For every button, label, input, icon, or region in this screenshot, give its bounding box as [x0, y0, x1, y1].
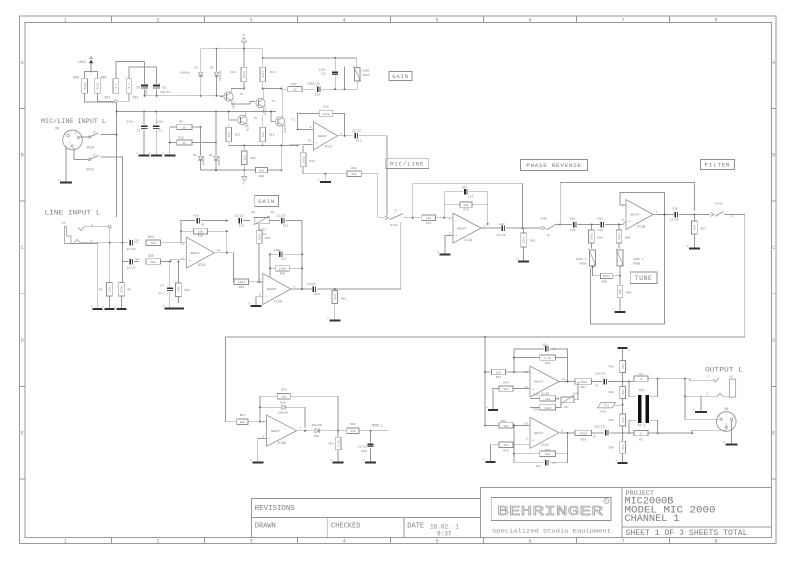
- svg-text:C8: C8: [201, 224, 205, 227]
- svg-text:1k04: 1k04: [238, 280, 245, 284]
- op-amp IC2C: [530, 417, 559, 448]
- wire bus drop to R57: [485, 337, 491, 372]
- wire R22 bottom: [118, 94, 129, 102]
- node X1 tip: [108, 225, 111, 228]
- mid cross resistor R33: [540, 405, 556, 410]
- svg-text:VR3B: VR3B: [633, 262, 640, 265]
- wire T6 base: [229, 112, 237, 121]
- resistor R14: [302, 145, 304, 152]
- svg-text:R3F: R3F: [609, 446, 615, 449]
- svg-text:47u: 47u: [158, 293, 164, 296]
- wire XLR pin1 to ground: [731, 421, 733, 442]
- resistor R31: [575, 379, 592, 384]
- svg-text:5521: 5521: [603, 275, 610, 278]
- svg-text:100k-C: 100k-C: [576, 257, 587, 261]
- node R21 bottom: [115, 100, 118, 103]
- wire IC1A output: [481, 227, 501, 229]
- resistor R20: [244, 169, 256, 171]
- svg-text:2k: 2k: [183, 141, 187, 145]
- resistor R2F: [241, 151, 247, 165]
- svg-text:BEHRINGER: BEHRINGER: [497, 504, 604, 520]
- svg-text:A: A: [327, 317, 329, 320]
- svg-text:R28: R28: [323, 106, 329, 109]
- resistor R29: [258, 224, 260, 231]
- resistor R79: [413, 217, 420, 219]
- svg-text:IC1C: IC1C: [324, 146, 332, 150]
- svg-text:D: D: [94, 130, 96, 134]
- svg-text:47E: 47E: [350, 430, 356, 433]
- title block vertical divider: [621, 488, 623, 538]
- op-amp IC2D: [530, 366, 559, 397]
- svg-text:A: A: [437, 251, 439, 254]
- svg-text:2: 2: [718, 415, 720, 418]
- wire T1 emitter: [262, 107, 264, 111]
- svg-text:15u: 15u: [536, 465, 542, 468]
- mid cross resistor R35: [540, 396, 556, 401]
- svg-text:E22: E22: [239, 225, 245, 228]
- svg-text:6: 6: [263, 420, 265, 423]
- svg-text:A: A: [772, 60, 775, 66]
- wire R9 R10 left stub to ground: [169, 127, 171, 152]
- svg-text:22/25: 22/25: [496, 233, 505, 237]
- svg-text:7: 7: [656, 211, 658, 214]
- wire IC1B output: [653, 214, 674, 216]
- ground C2: [143, 152, 145, 156]
- svg-text:R37: R37: [545, 449, 551, 452]
- svg-text:A: A: [616, 460, 618, 463]
- label box TUNE: [630, 272, 657, 283]
- svg-text:7: 7: [299, 427, 301, 430]
- svg-text:R30: R30: [351, 167, 357, 170]
- svg-text:C17: C17: [468, 196, 474, 199]
- svg-text:A: A: [693, 409, 695, 412]
- svg-text:1N4148: 1N4148: [219, 71, 222, 81]
- svg-text:C: C: [21, 245, 24, 251]
- svg-text:E: E: [772, 431, 775, 437]
- svg-text:47k: 47k: [621, 390, 625, 395]
- wire bypass down: [521, 183, 523, 228]
- svg-text:PHASE REVERSE: PHASE REVERSE: [526, 162, 582, 169]
- wire phase bypass top: [560, 183, 694, 225]
- capacitor C17 47u: [444, 192, 463, 205]
- op-amp IC1B: [626, 200, 653, 230]
- BEHRINGER logo box: [491, 498, 611, 521]
- title block outline: [480, 488, 771, 538]
- svg-text:IC1D: IC1D: [197, 264, 205, 268]
- svg-text:R20: R20: [259, 175, 265, 178]
- wire V+ rail: [201, 48, 263, 50]
- svg-text:A: A: [486, 407, 488, 410]
- svg-text:10k: 10k: [545, 452, 551, 456]
- wire IC2A output: [291, 288, 312, 290]
- svg-text:4705: 4705: [580, 381, 587, 384]
- svg-text:22/25: 22/25: [669, 218, 678, 222]
- svg-text:A: A: [163, 305, 165, 308]
- wire VR1A wiper: [344, 67, 346, 90]
- svg-text:A: A: [250, 459, 252, 462]
- svg-text:9: 9: [526, 437, 528, 440]
- capacitor C7f 15u feedback: [514, 425, 544, 462]
- svg-text:100k: 100k: [108, 286, 112, 293]
- svg-text:A: A: [21, 60, 24, 66]
- resistor R87: [693, 215, 695, 221]
- transformer TR1 primary leads: [629, 382, 636, 397]
- svg-text:+: +: [188, 259, 190, 263]
- svg-text:BE037: BE037: [318, 135, 327, 138]
- svg-text:R66: R66: [73, 76, 79, 80]
- frame column ticks bottom: [111, 538, 113, 544]
- svg-text:A: A: [483, 458, 485, 461]
- wire switch C line down: [122, 227, 124, 262]
- wire switch D output down: [103, 135, 117, 218]
- resistor R13: [260, 127, 266, 142]
- svg-text:A: A: [612, 309, 614, 312]
- svg-text:C9: C9: [595, 384, 599, 387]
- ground R14/R30 node: [324, 174, 326, 182]
- svg-text:R96: R96: [626, 292, 632, 295]
- wire T6 collector: [244, 112, 246, 116]
- resistor RP1: [337, 431, 339, 437]
- svg-text:47k: 47k: [621, 364, 625, 369]
- svg-text:VR3A: VR3A: [579, 262, 586, 265]
- resistor R82: [523, 228, 525, 232]
- svg-text:B: B: [548, 234, 550, 237]
- wire IC2D output: [559, 381, 575, 383]
- ground RP1: [337, 459, 339, 463]
- resistor R96: [619, 276, 621, 285]
- svg-text:R9: R9: [179, 120, 183, 123]
- wire bus drop lower: [484, 372, 486, 425]
- svg-text:6: 6: [528, 539, 531, 545]
- svg-text:+48V: +48V: [77, 61, 86, 65]
- wire XLR pin3 to switch C: [74, 148, 88, 160]
- svg-text:LINE INPUT L: LINE INPUT L: [45, 210, 101, 217]
- svg-text:MIC/LINE: MIC/LINE: [390, 161, 424, 168]
- svg-text:DATE: DATE: [407, 523, 424, 531]
- svg-text:C4: C4: [160, 285, 164, 288]
- svg-text:C8: C8: [553, 348, 557, 351]
- svg-text:2: 2: [156, 17, 159, 23]
- transistor T2 BC546: [275, 117, 284, 126]
- svg-text:22/25: 22/25: [127, 247, 136, 251]
- frame row ticks left: [20, 107, 26, 109]
- ground R81: [334, 316, 336, 321]
- wire emitter sense node: [244, 144, 297, 146]
- svg-text:VR1A: VR1A: [362, 74, 369, 77]
- wire rail to C28 branch: [262, 49, 264, 58]
- resistor R1: [629, 381, 634, 383]
- svg-text:511: 511: [262, 132, 265, 137]
- svg-text:8: 8: [714, 539, 717, 545]
- wire IC1C output: [338, 135, 354, 137]
- svg-text:3: 3: [249, 17, 252, 23]
- wire mic bus to T2 base region: [223, 111, 277, 113]
- wire T6 emitter: [244, 124, 246, 127]
- svg-text:Sv4A: Sv4A: [715, 203, 722, 206]
- frame row ticks right: [772, 107, 777, 109]
- svg-text:R38: R38: [581, 438, 587, 441]
- svg-text:R33: R33: [534, 409, 540, 412]
- wire R22 top to C5: [129, 67, 157, 78]
- svg-text:R13: R13: [269, 134, 275, 137]
- svg-text:+: +: [147, 82, 149, 85]
- svg-text:100k: 100k: [120, 286, 124, 293]
- svg-text:R68: R68: [101, 76, 107, 80]
- svg-text:T2: T2: [291, 119, 295, 122]
- svg-text:BE037: BE037: [630, 214, 639, 217]
- svg-text:2xRO: 2xRO: [362, 70, 369, 73]
- svg-text:14: 14: [217, 249, 221, 252]
- svg-text:C28: C28: [321, 73, 327, 76]
- svg-text:R35: R35: [534, 394, 540, 397]
- wire mic base bus upper: [145, 95, 226, 97]
- svg-text:7: 7: [621, 17, 624, 23]
- svg-text:2: 2: [707, 375, 709, 378]
- svg-text:12: 12: [293, 89, 297, 92]
- svg-text:3: 3: [706, 392, 708, 395]
- svg-text:10k: 10k: [503, 443, 509, 447]
- svg-text:1.8k: 1.8k: [336, 440, 340, 447]
- svg-text:R94: R94: [625, 237, 631, 240]
- revisions block row divider: [251, 517, 480, 519]
- svg-text:TT2: TT2: [604, 405, 609, 408]
- resistor R59 feedback: [269, 254, 271, 282]
- svg-text:B: B: [21, 153, 24, 159]
- svg-text:R34: R34: [503, 381, 509, 384]
- svg-text:R87: R87: [701, 228, 707, 231]
- svg-text:E1: E1: [136, 239, 140, 242]
- svg-text:10k: 10k: [463, 203, 469, 207]
- svg-text:A: A: [58, 179, 60, 182]
- svg-text:T5: T5: [240, 93, 244, 96]
- wire jack branch: [684, 379, 686, 397]
- svg-text:7: 7: [621, 539, 624, 545]
- ground R3F: [622, 459, 624, 463]
- svg-text:R59: R59: [280, 272, 286, 275]
- svg-text:X9: X9: [55, 127, 59, 131]
- svg-text:510: 510: [243, 155, 246, 160]
- svg-text:4705: 4705: [580, 432, 587, 435]
- svg-text:-: -: [316, 128, 318, 132]
- svg-text:2: 2: [69, 141, 72, 143]
- svg-text:D2: D2: [209, 154, 213, 157]
- svg-text:6: 6: [528, 17, 531, 23]
- svg-text:RP3: RP3: [281, 389, 287, 392]
- jumper TT2: [598, 403, 616, 408]
- svg-text:R22: R22: [133, 96, 139, 100]
- svg-text:220/25: 220/25: [594, 372, 605, 376]
- svg-text:R41: R41: [609, 365, 615, 368]
- svg-text:10k: 10k: [151, 260, 157, 264]
- label box PHASE REVERSE: [521, 159, 588, 170]
- svg-text:SVH: SVH: [600, 411, 606, 414]
- svg-text:14: 14: [562, 378, 566, 381]
- svg-text:D3: D3: [194, 67, 198, 70]
- svg-text:A: A: [91, 305, 93, 308]
- ground R5 column: [97, 303, 99, 309]
- ground R34: [492, 405, 494, 410]
- transistor T5 2SB737: [224, 92, 233, 101]
- svg-text:10: 10: [308, 140, 312, 143]
- label box GAIN (line): [255, 195, 279, 206]
- svg-text:5: 5: [435, 539, 438, 545]
- svg-text:-: -: [532, 373, 534, 377]
- svg-text:GAIN: GAIN: [258, 198, 275, 205]
- wire mic bus lower: [117, 111, 223, 113]
- revisions block column dividers: [327, 518, 329, 538]
- svg-text:16.02. 1: 16.02. 1: [430, 524, 459, 531]
- svg-text:FILTER: FILTER: [705, 162, 731, 169]
- svg-text:E21: E21: [283, 225, 289, 228]
- svg-text:R14: R14: [310, 160, 316, 163]
- svg-text:1N414B: 1N414B: [311, 424, 321, 427]
- svg-text:10k: 10k: [503, 387, 509, 391]
- resistor R95: [593, 275, 601, 277]
- V+ supply arrow: [241, 38, 246, 43]
- svg-text:6k81: 6k81: [83, 82, 87, 89]
- svg-text:3: 3: [726, 423, 728, 426]
- svg-text:3001: 3001: [618, 233, 621, 240]
- svg-text:1: 1: [63, 17, 66, 23]
- svg-text:-20: -20: [269, 211, 274, 214]
- svg-text:1N4148: 1N4148: [180, 72, 190, 75]
- svg-text:2: 2: [259, 279, 261, 282]
- svg-text:510: 510: [259, 170, 265, 173]
- wire XLR pin1 to ground: [65, 146, 67, 178]
- resistor R3: [629, 432, 634, 434]
- svg-text:22/25: 22/25: [234, 214, 243, 218]
- svg-text:A: A: [248, 303, 250, 306]
- wire filter output down right side: [744, 215, 746, 338]
- svg-text:E18: E18: [356, 140, 362, 143]
- op-amp IC1A: [453, 213, 481, 243]
- svg-text:A: A: [732, 215, 734, 218]
- svg-text:3: 3: [449, 232, 451, 235]
- svg-text:5110: 5110: [243, 71, 246, 78]
- resistor R5: [107, 283, 113, 297]
- op-amp IC2B: [267, 415, 297, 446]
- svg-text:+: +: [265, 296, 267, 300]
- svg-text:R5: R5: [99, 289, 103, 292]
- svg-text:C6: C6: [136, 86, 140, 90]
- svg-text:604: 604: [694, 225, 697, 230]
- svg-text:DT-1: DT-1: [638, 424, 646, 428]
- svg-text:DRAWN: DRAWN: [255, 523, 276, 531]
- svg-text:BE037: BE037: [267, 288, 276, 291]
- svg-text:R2F: R2F: [251, 157, 257, 160]
- resistor R93: [590, 225, 592, 230]
- svg-text:5: 5: [622, 219, 624, 222]
- svg-text:3V3B: 3V3B: [540, 218, 547, 221]
- resistor R81: [334, 289, 336, 291]
- svg-text:D4: D4: [210, 67, 214, 70]
- svg-text:604: 604: [258, 234, 261, 239]
- svg-text:E19: E19: [314, 293, 320, 296]
- svg-text:E2: E2: [136, 258, 140, 261]
- svg-text:R6: R6: [128, 289, 132, 292]
- svg-text:R48: R48: [609, 419, 615, 422]
- svg-text:A: A: [723, 441, 725, 444]
- revisions block outline: [251, 499, 480, 538]
- svg-text:10k: 10k: [198, 230, 204, 234]
- svg-text:SV1C: SV1C: [87, 168, 95, 172]
- transformer TR1 secondary leads: [650, 379, 658, 397]
- resistor R26: [177, 262, 179, 284]
- svg-text:R57: R57: [496, 376, 502, 379]
- svg-text:SHEET 1 OF 3 SHEETS TOTAL: SHEET 1 OF 3 SHEETS TOTAL: [626, 529, 748, 538]
- svg-text:C7: C7: [553, 462, 557, 465]
- svg-text:4.7: 4.7: [115, 83, 118, 88]
- resistor R60: [234, 279, 249, 284]
- svg-text:10k: 10k: [151, 241, 157, 245]
- svg-text:GAIN: GAIN: [392, 73, 409, 80]
- label box MIC/LINE: [386, 159, 429, 169]
- svg-text:R3: R3: [639, 438, 643, 441]
- label box FILTER: [701, 159, 735, 169]
- ground mic shell: [65, 178, 67, 183]
- wire XLR pin2 feed: [685, 396, 720, 419]
- svg-text:B: B: [772, 153, 775, 159]
- svg-text:+20: +20: [250, 211, 255, 214]
- svg-text:2: 2: [156, 539, 159, 545]
- wire R1 to jack: [658, 378, 690, 380]
- svg-text:0: 0: [640, 378, 642, 381]
- svg-text:20k: 20k: [351, 172, 357, 176]
- resistor R42: [622, 382, 624, 387]
- svg-text:T1: T1: [272, 100, 276, 103]
- wire IC1C noninverting input: [283, 144, 314, 145]
- svg-text:100n: 100n: [319, 69, 326, 72]
- svg-text:9:37: 9:37: [437, 531, 452, 538]
- svg-text:E: E: [21, 431, 24, 437]
- svg-text:6k81: 6k81: [96, 82, 100, 89]
- wire R68 down: [98, 94, 114, 102]
- ground R5: [108, 303, 110, 309]
- svg-text:IC1B: IC1B: [637, 225, 645, 229]
- resistor R32 feedback: [514, 357, 540, 359]
- svg-text:R58: R58: [501, 420, 507, 423]
- svg-text:10k: 10k: [281, 395, 287, 399]
- svg-text:CHANNEL 1: CHANNEL 1: [625, 514, 680, 525]
- ground R82: [523, 257, 525, 262]
- svg-text:3: 3: [68, 148, 70, 151]
- resistor R36: [499, 442, 513, 447]
- resistor R37 feedback: [514, 453, 540, 455]
- wire T2 collector: [282, 89, 284, 118]
- svg-text:R32: R32: [545, 362, 551, 365]
- svg-text:+: +: [269, 437, 271, 441]
- transistor T1 2SB737: [256, 98, 265, 107]
- svg-text:Specialized Studio Equipment: Specialized Studio Equipment: [492, 529, 611, 535]
- svg-text:12: 12: [524, 386, 528, 389]
- svg-text:BC546: BC546: [247, 123, 250, 131]
- svg-text:A: A: [628, 349, 630, 352]
- svg-text:+: +: [455, 235, 457, 239]
- capacitor E23 22/25: [370, 431, 372, 443]
- svg-text:T6: T6: [254, 117, 258, 120]
- svg-text:A: A: [687, 245, 689, 248]
- wire main lower bus: [225, 336, 744, 338]
- svg-text:1k47: 1k47: [261, 71, 265, 78]
- svg-text:8: 8: [714, 17, 717, 23]
- svg-text:220u: 220u: [126, 121, 133, 124]
- wire T1 base from T5: [244, 102, 255, 105]
- wire node down: [109, 228, 111, 282]
- svg-text:R36: R36: [503, 449, 509, 452]
- svg-text:1N4148: 1N4148: [203, 156, 206, 166]
- svg-text:R11: R11: [271, 71, 277, 74]
- svg-text:4.7: 4.7: [128, 83, 131, 88]
